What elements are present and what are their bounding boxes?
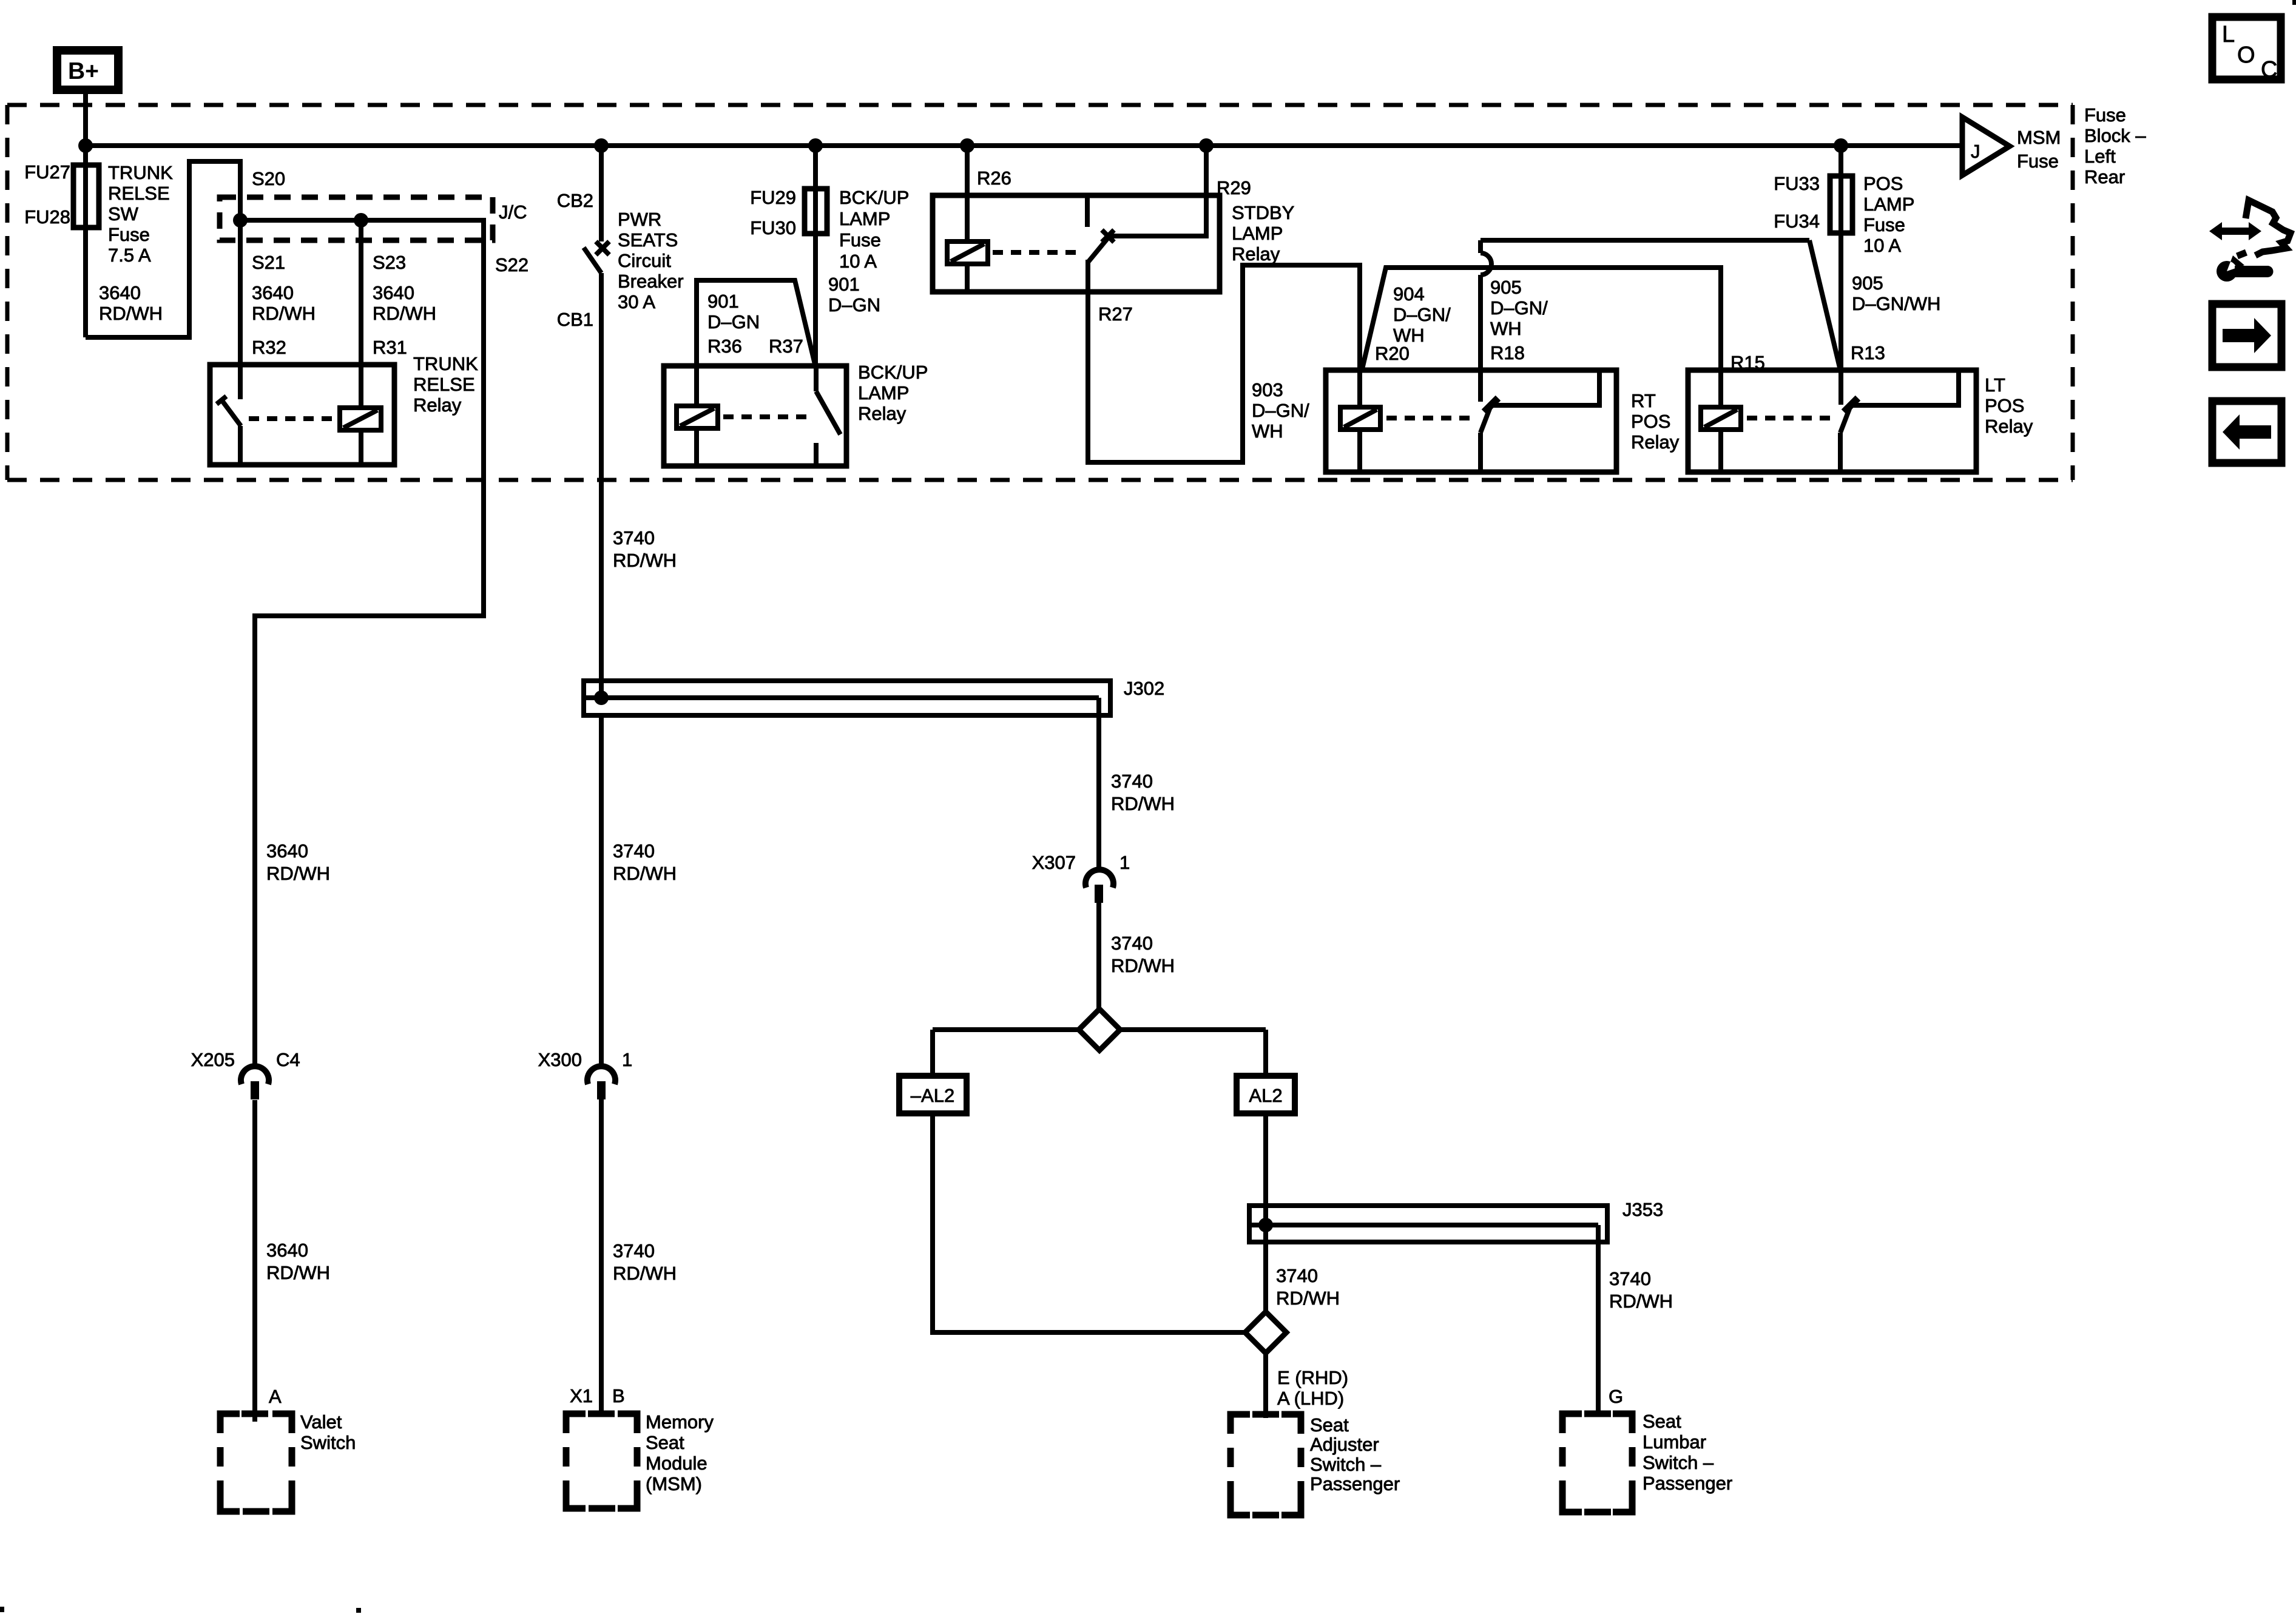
svg-text:1: 1 [1119, 852, 1130, 873]
circuit breaker CB2/CB1 (PWR SEATS Circuit Breaker 30 A) [584, 146, 609, 698]
MSM Fuse off-page triangle J [1962, 117, 2010, 175]
svg-text:C4: C4 [276, 1049, 300, 1070]
svg-text:A: A [269, 1386, 282, 1407]
svg-text:Fuse: Fuse [108, 224, 150, 245]
connector J302 [584, 681, 1110, 715]
wire bus down to STDBY relay R29 [1111, 146, 1206, 236]
svg-text:J: J [1971, 141, 1980, 162]
svg-text:RD/WH: RD/WH [1609, 1291, 1673, 1312]
svg-text:Fuse: Fuse [1863, 214, 1905, 235]
relay STDBY LAMP Relay [933, 195, 1220, 292]
svg-text:L: L [2222, 22, 2235, 47]
svg-text:CB1: CB1 [557, 309, 593, 330]
svg-text:RELSE: RELSE [108, 183, 170, 204]
memory seat module dashed box [566, 1414, 637, 1508]
node S21 [233, 213, 248, 228]
svg-text:FU28: FU28 [24, 206, 70, 228]
connector X205 pin C4 [241, 1066, 269, 1099]
wire S23 down to trunk relay coil R31 [359, 220, 363, 465]
svg-text:SEATS: SEATS [618, 229, 678, 251]
svg-text:RD/WH: RD/WH [373, 303, 436, 324]
lt pos relay coil [1718, 370, 1723, 472]
node S23 [354, 213, 368, 228]
svg-text:Passenger: Passenger [1310, 1473, 1400, 1494]
svg-text:3640: 3640 [373, 282, 414, 303]
svg-text:SW: SW [108, 203, 139, 224]
lt pos relay contact x-mark [1844, 398, 1858, 412]
svg-text:RD/WH: RD/WH [613, 550, 677, 571]
wire X307 down to splice [1096, 903, 1101, 1009]
svg-text:R36: R36 [707, 336, 742, 357]
svg-text:10 A: 10 A [839, 251, 877, 272]
svg-text:Breaker: Breaker [618, 271, 684, 292]
junction node dots on bus [78, 138, 93, 153]
terminal AL2 [1237, 1076, 1295, 1113]
svg-text:Relay: Relay [413, 394, 462, 416]
svg-text:S22: S22 [495, 254, 528, 275]
svg-text:RT: RT [1631, 390, 1656, 411]
wire 905 diagonal to R13 [1809, 240, 1840, 370]
svg-text:Relay: Relay [1985, 416, 2033, 437]
svg-text:3640: 3640 [266, 840, 308, 862]
icon adjustable component (double arrow with outline and wrench) [2209, 200, 2291, 282]
svg-text:905: 905 [1852, 272, 1883, 294]
svg-text:MSM: MSM [2017, 127, 2061, 148]
wire B+ down to bus [83, 94, 88, 146]
svg-text:FU30: FU30 [750, 217, 796, 238]
svg-text:3640: 3640 [99, 282, 141, 303]
connector J353 [1249, 1206, 1607, 1242]
wire S21 to S23 to S22 [240, 220, 484, 1066]
svg-text:LAMP: LAMP [858, 382, 909, 403]
svg-text:901: 901 [707, 291, 739, 312]
fuse FU27/FU28 (TRUNK RELSE SW Fuse 7.5 A) [73, 165, 99, 228]
svg-text:J353: J353 [1622, 1199, 1663, 1220]
svg-text:Relay: Relay [1631, 431, 1680, 453]
svg-text:Switch –: Switch – [1310, 1454, 1382, 1475]
fuse FU33/FU34 (POS LAMP Fuse 10 A) [1830, 176, 1852, 233]
wire 3640 RD/WH routing fuse to S20 [86, 161, 240, 337]
wire bus to FU33 fuse down to LT POS relay R13 [1838, 146, 1843, 405]
svg-text:Seat: Seat [1643, 1411, 1681, 1432]
seat lumbar switch dashed box [1562, 1414, 1632, 1512]
svg-text:Memory: Memory [646, 1411, 714, 1433]
svg-text:Fuse: Fuse [839, 229, 881, 251]
svg-text:Switch: Switch [300, 1432, 356, 1453]
svg-text:30 A: 30 A [618, 291, 655, 312]
splice diamond lower [1245, 1312, 1286, 1353]
wire bus to FU29 fuse down to BCK/UP relay R37 [813, 146, 818, 366]
stdby relay contact x-mark [1102, 230, 1114, 242]
wire -AL2 down to lower splice [933, 1113, 1245, 1332]
svg-text:RD/WH: RD/WH [613, 1263, 677, 1284]
wire J302 down to X307 [1096, 715, 1101, 870]
svg-text:CB2: CB2 [557, 190, 593, 211]
svg-text:RD/WH: RD/WH [266, 1262, 330, 1283]
svg-text:R20: R20 [1375, 343, 1410, 364]
svg-text:R13: R13 [1851, 342, 1885, 363]
svg-text:Circuit: Circuit [618, 250, 671, 271]
rt pos relay coil [1357, 370, 1362, 472]
lt pos relay switch blade [1840, 404, 1851, 433]
svg-text:S23: S23 [373, 252, 406, 273]
svg-text:B: B [612, 1385, 625, 1406]
svg-text:Relay: Relay [858, 403, 907, 424]
svg-text:Rear: Rear [2084, 166, 2125, 187]
svg-text:3740: 3740 [613, 840, 655, 862]
svg-text:R32: R32 [252, 337, 286, 358]
svg-text:905: 905 [1490, 277, 1522, 298]
svg-text:PWR: PWR [618, 209, 661, 230]
svg-text:B+: B+ [68, 58, 99, 84]
svg-text:Module: Module [646, 1453, 707, 1474]
wire X300 down to MSM [599, 1099, 604, 1414]
rt pos relay contact x-mark [1484, 398, 1498, 412]
svg-text:R27: R27 [1098, 303, 1133, 325]
svg-text:Left: Left [2084, 146, 2116, 167]
svg-text:3640: 3640 [266, 1240, 308, 1261]
bck/up relay switch blade [814, 366, 819, 391]
svg-text:FU34: FU34 [1774, 211, 1820, 232]
svg-text:WH: WH [1252, 420, 1283, 442]
svg-text:Block –: Block – [2084, 125, 2146, 146]
svg-text:A (LHD): A (LHD) [1277, 1388, 1344, 1409]
stdby relay coil [947, 241, 988, 264]
svg-text:O: O [2237, 42, 2255, 68]
wire J302 to X300 [599, 715, 604, 1066]
svg-text:10 A: 10 A [1863, 235, 1901, 256]
svg-text:Relay: Relay [1232, 243, 1280, 265]
svg-text:D–GN/WH: D–GN/WH [1852, 293, 1940, 314]
relay BCK/UP LAMP Relay [664, 366, 846, 466]
rt pos relay dashed actuator line [1386, 416, 1471, 420]
svg-text:BCK/UP: BCK/UP [839, 187, 909, 208]
hop over 904 wire [1481, 253, 1491, 275]
svg-text:Lumbar: Lumbar [1643, 1431, 1706, 1453]
svg-text:J302: J302 [1124, 678, 1164, 699]
svg-text:C: C [2261, 57, 2277, 83]
svg-text:POS: POS [1985, 395, 2024, 416]
lt pos relay switch output [1851, 370, 1959, 405]
svg-text:WH: WH [1490, 318, 1522, 339]
junction connector J/C dashed box [220, 197, 493, 240]
svg-text:RELSE: RELSE [413, 374, 475, 395]
stdby relay switch blade [1089, 237, 1109, 262]
svg-text:R37: R37 [769, 336, 803, 357]
svg-text:X205: X205 [191, 1049, 235, 1070]
wire AL2 down through J353 [1263, 1113, 1268, 1312]
svg-text:BCK/UP: BCK/UP [858, 362, 928, 383]
svg-text:TRUNK: TRUNK [413, 353, 478, 374]
svg-text:901: 901 [828, 274, 860, 295]
stdby relay dashed actuator line [993, 250, 1081, 255]
seat adjuster switch dashed box [1231, 1414, 1301, 1515]
wire bus to FU27 fuse and down [83, 146, 88, 337]
bck/up relay coil [694, 366, 699, 466]
svg-text:TRUNK: TRUNK [108, 162, 173, 183]
svg-text:Fuse: Fuse [2017, 150, 2059, 172]
fuse FU29/FU30 (BCK/UP LAMP Fuse 10 A) [805, 189, 827, 234]
svg-text:G: G [1609, 1386, 1623, 1407]
svg-text:E (RHD): E (RHD) [1277, 1367, 1348, 1388]
connector X300 pin 1 [587, 1066, 615, 1099]
svg-text:Seat: Seat [646, 1432, 684, 1453]
svg-text:D–GN: D–GN [828, 294, 880, 316]
splice diamond upper [933, 1009, 1266, 1076]
trunk relay switch blade [221, 400, 241, 426]
svg-text:S21: S21 [252, 252, 285, 273]
svg-text:R26: R26 [977, 167, 1011, 189]
svg-text:R31: R31 [373, 337, 407, 358]
rt pos relay switch blade [1481, 404, 1491, 433]
wire S21 down to trunk relay R32 [238, 220, 243, 399]
svg-text:FU27: FU27 [24, 161, 70, 183]
svg-text:D–GN/: D–GN/ [1252, 400, 1309, 421]
svg-text:X1: X1 [570, 1385, 593, 1406]
svg-text:Seat: Seat [1310, 1414, 1349, 1436]
svg-text:Adjuster: Adjuster [1310, 1434, 1379, 1455]
trunk relay dashed actuator line [249, 416, 335, 421]
main bus wire [86, 143, 1963, 148]
svg-text:3740: 3740 [613, 527, 655, 549]
svg-text:AL2: AL2 [1249, 1085, 1282, 1106]
svg-text:R18: R18 [1490, 342, 1525, 363]
svg-text:LAMP: LAMP [839, 208, 890, 229]
svg-text:D–GN/: D–GN/ [1490, 297, 1548, 319]
icon right arrow box [2212, 304, 2281, 367]
svg-text:903: 903 [1252, 379, 1283, 400]
valet switch dashed box [220, 1414, 292, 1511]
stdby relay fixed contact [1085, 195, 1090, 227]
svg-text:–AL2: –AL2 [911, 1085, 954, 1106]
svg-text:Fuse: Fuse [2084, 104, 2126, 126]
svg-text:Switch –: Switch – [1643, 1452, 1714, 1473]
svg-text:POS: POS [1631, 411, 1670, 432]
terminal -AL2 [899, 1076, 967, 1113]
relay RT POS Relay [1326, 370, 1616, 472]
svg-text:LT: LT [1985, 374, 2005, 396]
svg-text:3740: 3740 [613, 1240, 655, 1261]
svg-text:POS: POS [1863, 173, 1903, 194]
icon left arrow box [2212, 401, 2281, 463]
svg-text:STDBY: STDBY [1232, 202, 1294, 223]
wire bus down to STDBY relay coil R26 [965, 146, 970, 292]
wire 904 D-GN/WH from R20 to R15 [1362, 268, 1721, 370]
svg-text:RD/WH: RD/WH [613, 863, 677, 884]
svg-text:1: 1 [622, 1049, 632, 1070]
svg-text:904: 904 [1393, 283, 1425, 305]
svg-text:J/C: J/C [499, 201, 527, 223]
svg-text:RD/WH: RD/WH [252, 303, 316, 324]
svg-text:3640: 3640 [252, 282, 294, 303]
trunk relay coil [340, 408, 381, 430]
relay LT POS Relay [1688, 370, 1976, 472]
svg-text:S20: S20 [252, 168, 285, 189]
wire splice down to seat adjuster switch [1263, 1353, 1268, 1418]
svg-text:FU29: FU29 [750, 187, 796, 208]
svg-text:RD/WH: RD/WH [1111, 955, 1175, 976]
svg-text:(MSM): (MSM) [646, 1473, 702, 1494]
page artifact marks [2292, 0, 2296, 5]
svg-text:RD/WH: RD/WH [1276, 1288, 1340, 1309]
fuse block dashed border (Fuse Block - Left Rear) [7, 105, 2073, 480]
svg-text:D–GN/: D–GN/ [1393, 304, 1451, 325]
svg-text:FU33: FU33 [1774, 173, 1820, 194]
svg-text:3740: 3740 [1609, 1268, 1651, 1289]
svg-text:3740: 3740 [1276, 1265, 1318, 1286]
svg-text:3740: 3740 [1111, 771, 1153, 792]
bck/up relay dashed actuator line [723, 414, 808, 419]
wire 905 D-GN/WH from FU34 branch over hop to R18 [1481, 238, 1809, 243]
svg-text:D–GN: D–GN [707, 311, 760, 333]
lt pos relay dashed actuator line [1747, 416, 1831, 420]
wire J353 right down to seat lumbar switch [1596, 1242, 1601, 1415]
battery feed symbol B+ [57, 50, 118, 90]
LOC legend box [2212, 17, 2281, 83]
wire R36 loop up and over to R37 [697, 280, 815, 366]
wire R27 / 903 D-GN/WH from STDBY switch to RT POS relay coil R20 [1088, 260, 1360, 462]
svg-text:LAMP: LAMP [1232, 223, 1283, 244]
svg-text:Passenger: Passenger [1643, 1473, 1732, 1494]
relay TRUNK RELSE Relay [210, 365, 394, 465]
svg-text:X300: X300 [538, 1049, 582, 1070]
svg-text:3740: 3740 [1111, 933, 1153, 954]
svg-text:RD/WH: RD/WH [266, 863, 330, 884]
connector X307 pin 1 [1086, 869, 1113, 903]
svg-text:RD/WH: RD/WH [1111, 793, 1175, 814]
rt pos relay switch output [1491, 370, 1599, 405]
svg-text:RD/WH: RD/WH [99, 303, 163, 324]
svg-text:X307: X307 [1032, 852, 1076, 873]
svg-text:LAMP: LAMP [1863, 194, 1914, 215]
svg-text:Valet: Valet [300, 1411, 342, 1433]
svg-text:7.5 A: 7.5 A [108, 245, 151, 266]
